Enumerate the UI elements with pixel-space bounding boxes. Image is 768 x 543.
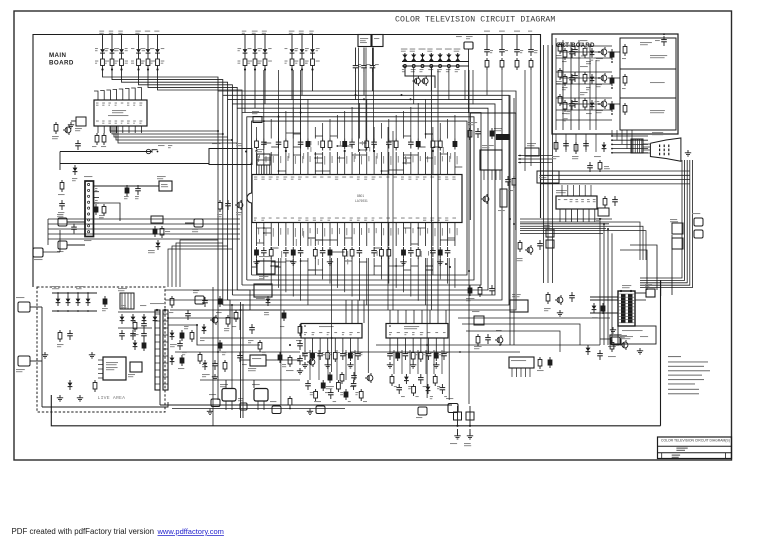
sound part C19	[322, 380, 324, 383]
regulator part C13	[179, 340, 181, 344]
pullup resistor R14 pair under U2	[96, 133, 98, 136]
left PSU column parts	[61, 180, 63, 183]
sound section parts	[497, 337, 503, 343]
standby regulator box U13	[151, 216, 163, 223]
svg-text:MAIN: MAIN	[49, 52, 67, 59]
flyback transformer T2	[618, 291, 635, 326]
regulator part C14	[239, 352, 241, 356]
regulator part C15	[299, 340, 301, 344]
svg-text:LA76931: LA76931	[355, 199, 368, 203]
video switch box U12	[257, 154, 270, 165]
wire bus loops around IC U1	[218, 91, 516, 310]
audio coil F2 (dark)	[496, 134, 510, 140]
line filter choke	[120, 293, 134, 309]
main board right edge wire	[660, 280, 662, 426]
supply column with capacitor C5	[499, 31, 505, 32]
wire stubs loops to U4/U5	[389, 310, 391, 323]
CRT driver transistor Q2 with resistors	[601, 75, 607, 81]
title block	[658, 437, 732, 459]
tuner column capacitor C2	[363, 48, 365, 63]
secondary rectifiers	[171, 330, 173, 333]
sound part C17	[307, 380, 309, 384]
wire run under U4	[160, 404, 452, 406]
relay box K2	[211, 399, 220, 407]
right band wires	[458, 317, 610, 319]
sound part C21	[337, 380, 339, 383]
protection zener D13	[401, 49, 408, 50]
switch transistor Q4	[527, 247, 533, 253]
connector CN2 drops	[464, 70, 466, 100]
IC U2 (EEPROM) body	[94, 100, 147, 126]
chroma part C29	[420, 374, 422, 378]
CRT board bias resistors	[559, 42, 561, 45]
protection zener D18	[445, 49, 452, 50]
live area matrix parts	[121, 314, 123, 317]
regulator part E3	[219, 340, 221, 343]
protection zener D19	[454, 49, 461, 50]
wire from CN3 to IR box	[94, 185, 160, 187]
supply column with capacitor C4	[484, 31, 490, 32]
CRT top cap C16	[663, 36, 665, 40]
HV wire from flyback	[660, 280, 662, 296]
CRT board inner frame	[620, 38, 676, 130]
CRT left section row wires	[556, 45, 612, 47]
B+ adjust parts	[289, 355, 291, 358]
relay box K1	[537, 171, 559, 183]
supply column with capacitor C6	[514, 31, 520, 32]
east parts row	[479, 285, 481, 288]
degauss fuse pair	[457, 406, 459, 426]
capacitor trio right of U1	[507, 176, 509, 180]
regulator part E4	[279, 352, 281, 355]
degauss connector	[240, 403, 247, 410]
buffer parts Q5	[557, 297, 563, 303]
horiz drive components	[622, 342, 628, 348]
svg-text:COLOR TELEVISION CIRCUIT DIAGR: COLOR TELEVISION CIRCUIT DIAGRAM(S)	[661, 439, 730, 443]
main board outline	[33, 35, 541, 288]
secondary part C12	[251, 324, 253, 328]
PSU ground rail	[41, 307, 43, 407]
flyback left feed	[590, 296, 618, 298]
output connector J6	[316, 406, 325, 414]
spark gaps row	[546, 229, 554, 237]
ground G1 near CRT	[687, 150, 689, 153]
yoke connector CN5	[694, 218, 703, 226]
secondary part C11	[187, 310, 189, 314]
B+ vertical pair	[240, 302, 242, 418]
IF input switch S1	[152, 150, 158, 153]
connector CN3 (front panel)	[85, 181, 94, 237]
resistor R13 and capacitor C8 beside U1	[469, 128, 471, 131]
delay line DL2	[254, 284, 272, 297]
supply column with diode D7 and resistor R7	[242, 31, 247, 32]
ceramic filter Z2	[480, 150, 502, 170]
delay line DL1	[257, 261, 275, 274]
CRT board lower parts	[555, 140, 557, 143]
switch box SW1	[58, 241, 67, 249]
extra link wires above U1	[315, 157, 322, 159]
key resistors on CN3 rows	[126, 185, 128, 188]
audio out components	[329, 372, 331, 375]
diode row bus wires	[402, 61, 469, 63]
svg-text:COLOR TELEVISION CIRCUIT DIAGR: COLOR TELEVISION CIRCUIT DIAGRAM	[395, 16, 555, 25]
diode row drops	[413, 68, 415, 104]
secondary part R17	[235, 310, 237, 313]
protection zener D14	[410, 49, 416, 50]
CRT board connector CN4	[556, 196, 597, 209]
secondary part E1	[219, 296, 221, 299]
IR receiver box U3	[159, 181, 172, 191]
secondary rail wires	[165, 300, 230, 323]
secondary part D21	[267, 296, 269, 299]
capacitor C9 beside U2	[76, 117, 86, 126]
chroma part C32	[441, 384, 443, 388]
east box EB1	[510, 300, 528, 312]
wire feeders from second column group	[244, 70, 246, 113]
chroma part C30	[427, 384, 429, 387]
left jack J3	[33, 248, 43, 257]
left wires	[59, 230, 61, 252]
supply column with diode D4 and resistor R4	[135, 31, 141, 32]
side connector J4	[418, 407, 427, 415]
junction dots on buses	[217, 130, 219, 132]
crystal X1	[253, 117, 262, 123]
regulator part R20	[259, 340, 261, 343]
protection zener D15	[419, 49, 426, 50]
CRT board outline	[552, 34, 678, 134]
flyback top wires	[620, 250, 647, 290]
bridge rectifier diodes	[52, 292, 97, 294]
group F drops	[486, 70, 488, 95]
CRT socket connector hatch	[631, 139, 643, 153]
sound part C24	[360, 389, 362, 392]
mid vertical drops	[309, 350, 311, 380]
wire harness right vertical	[599, 219, 601, 345]
wire feeders tuner columns down	[355, 72, 357, 100]
decoupling parts below U1 (R/C cluster)	[256, 247, 258, 250]
tuner column capacitor C1	[355, 48, 357, 63]
switching transformer T1	[155, 310, 160, 390]
extra corner bundle NE	[520, 222, 640, 260]
wire bundle CRT feed horizontal	[540, 170, 690, 172]
sound part C22	[345, 389, 347, 392]
SAW filter Z1 box	[209, 149, 252, 165]
wire bus under U2	[110, 126, 218, 131]
B+ filter caps C main	[222, 389, 236, 402]
live area dashed outline	[37, 287, 165, 412]
RGB harness stub	[518, 155, 552, 157]
wires to delay lines	[252, 266, 257, 268]
chroma part C25	[391, 374, 393, 377]
supply column with diode D2 and resistor R2	[109, 31, 113, 32]
chopper diode cluster	[204, 360, 206, 363]
svg-text:www.pdffactory.com: www.pdffactory.com	[157, 527, 224, 536]
left bundle drop wires	[217, 310, 219, 400]
mains fuse box	[18, 356, 30, 366]
sheet outer border	[14, 11, 732, 460]
CN4 side parts	[604, 196, 606, 199]
svg-text:BOARD: BOARD	[49, 60, 74, 67]
wire harness left-to-center	[48, 218, 240, 220]
chroma part C31	[434, 374, 436, 377]
tuner box TU1	[358, 35, 371, 47]
sound part C18	[315, 389, 317, 392]
audio section frame	[469, 113, 471, 220]
notes text block	[668, 356, 681, 357]
ground G2 at flyback	[612, 327, 614, 330]
vertical IC U6	[509, 357, 534, 368]
long drop wires right-mid	[431, 67, 433, 311]
jumper box JP1	[525, 148, 539, 156]
power IC U7 (STR)	[103, 357, 126, 380]
wires CRT box to bundle	[555, 134, 557, 152]
run to AV jack	[276, 359, 300, 361]
IC U1 top pin stubs and pin labels	[256, 152, 258, 175]
svg-text:LIVE AREA: LIVE AREA	[98, 395, 126, 401]
reset box U11	[500, 189, 507, 207]
supply column with diode D12 and resistor R12	[309, 31, 313, 32]
filter capacitor C10	[104, 296, 106, 299]
protection zener D16	[427, 49, 432, 50]
IC U5 body	[386, 324, 448, 339]
long signal wires below IC	[280, 258, 282, 405]
wire IF input run	[60, 151, 152, 153]
CRT board extra rails	[589, 44, 591, 130]
parts below IC U5	[389, 350, 391, 354]
chroma part C26	[398, 384, 400, 388]
mains inlet box	[18, 302, 30, 312]
jack box J1	[194, 219, 203, 227]
CRT socket funnel	[650, 138, 681, 161]
resistor R15 rows mid-left	[219, 200, 221, 203]
supply column with diode D8 and resistor R8	[252, 31, 258, 32]
sync sep box U14	[474, 316, 484, 325]
IC U1 bottom pin stubs and pin labels	[256, 223, 258, 247]
audio box U10	[610, 335, 621, 344]
tuner column capacitor C3	[372, 48, 374, 63]
secondary ground rail	[172, 408, 345, 410]
chroma part C28	[413, 384, 415, 387]
IC U1 (LA76931 jungle) body	[252, 175, 462, 223]
supply column with diode D3 and resistor R3	[118, 31, 123, 32]
flyback aux box	[646, 289, 655, 297]
wire harness loops-to-right	[520, 218, 612, 220]
audio feed wires	[376, 344, 600, 346]
supply column with diode D9 and resistor R9	[262, 31, 267, 32]
wire bundle right of CRT down	[640, 160, 682, 278]
CRT board RGB rails	[562, 40, 564, 130]
PSU output rail wires	[168, 318, 240, 330]
PSU snubber parts	[134, 320, 136, 323]
supply column with capacitor C7	[528, 31, 532, 32]
svg-text:PDF created with pdfFactory tr: PDF created with pdfFactory trial versio…	[12, 527, 155, 536]
output connector J5	[272, 406, 281, 414]
CRT bias parts row 3	[564, 100, 566, 103]
parts below IC U4	[304, 350, 306, 354]
IC U2 pin stubs	[94, 91, 98, 100]
supply column with diode D11 and resistor R11	[299, 31, 304, 32]
optocoupler U8	[130, 362, 142, 372]
LED D17 box	[58, 218, 67, 226]
CRT funnel feed wires	[612, 135, 648, 137]
regulator U9	[250, 355, 266, 366]
secondary part R16	[171, 296, 173, 299]
wire RGB drops to connector	[561, 185, 563, 196]
protection zener D17	[436, 49, 442, 50]
CRT driver transistor Q1 with resistors	[601, 49, 607, 55]
left harness corner drops	[180, 240, 218, 287]
secondary part R18	[299, 324, 301, 327]
secondary part D20	[203, 324, 205, 327]
left parts Q6	[65, 127, 71, 133]
chroma part C27	[405, 374, 407, 377]
CRT grid resistors	[624, 44, 626, 47]
wire feeders from supply columns to bus	[103, 70, 219, 92]
CRT driver transistor Q3 with resistors	[601, 101, 607, 107]
regulator part R19	[199, 352, 201, 355]
extra link wires below U1	[389, 265, 396, 267]
supply column with diode D10 and resistor R10	[289, 31, 295, 32]
secondary part E2	[283, 310, 285, 313]
svg-text:8801: 8801	[357, 194, 364, 198]
flyback pin area	[618, 326, 656, 344]
IC U4 body	[301, 324, 362, 339]
CRT bias parts row 2	[564, 74, 566, 77]
supply column with diode D6 and resistor R6	[154, 31, 159, 32]
focus pack boxes	[672, 223, 683, 234]
sound part C23	[353, 380, 355, 384]
standby transformer parts	[204, 297, 206, 301]
supply column with diode D1 and resistor R1	[99, 31, 104, 32]
sound part C20	[330, 389, 332, 393]
wire AV down	[468, 330, 470, 404]
long signal wires through top bundle	[263, 70, 265, 152]
connector CN2	[464, 42, 473, 49]
supply column with diode D5 and resistor R5	[145, 31, 150, 32]
CRT bias parts row 1	[564, 48, 566, 51]
decoupling parts above U1 (R/C cluster)	[256, 139, 258, 142]
AV jack box J2	[448, 404, 458, 413]
wire bundle main-to-CRT vertical	[543, 45, 545, 283]
long wire pair right	[509, 95, 511, 345]
